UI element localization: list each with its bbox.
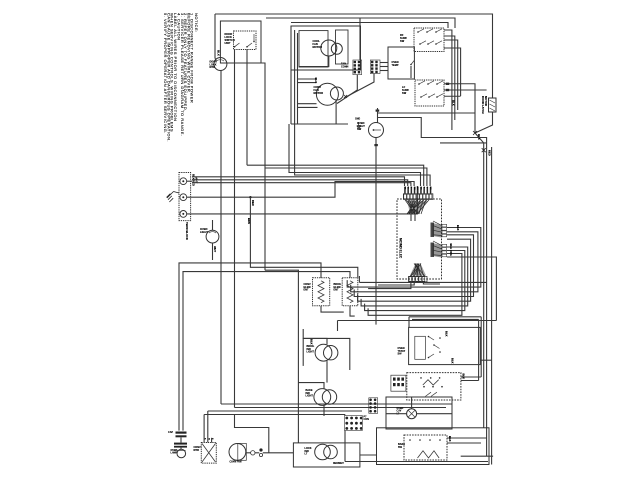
S5 wiper zigzag bbox=[423, 380, 439, 385]
broil relay pilot L1a bbox=[315, 344, 332, 361]
wire blower feed 1 bbox=[298, 78, 317, 80]
wire from door switch down bbox=[246, 50, 248, 166]
switch blade bbox=[428, 41, 434, 44]
terminal N bbox=[180, 194, 187, 201]
S3 contact bbox=[373, 129, 375, 131]
wire S3 to right bbox=[378, 112, 476, 114]
wire broil bottom bbox=[350, 306, 355, 316]
oven light switch S3 bbox=[369, 123, 384, 138]
S4 blade 1 bbox=[429, 337, 435, 341]
switch blade bbox=[411, 61, 414, 65]
svg-text:LIGHT: LIGHT bbox=[306, 395, 314, 398]
label BLK bbox=[448, 436, 452, 442]
wire right vertical s1 bbox=[480, 317, 482, 377]
selector switch S5 bbox=[407, 373, 461, 400]
svg-text:LIGHT: LIGHT bbox=[200, 230, 208, 234]
splice X1 bbox=[344, 95, 347, 98]
surface switch S2 bbox=[415, 80, 444, 106]
S7 wiper zigzag bbox=[418, 451, 440, 458]
label WHT bbox=[195, 177, 199, 184]
label P1 pin 2 bbox=[407, 187, 409, 189]
terminal T2a bbox=[259, 448, 262, 451]
wire pilot2 top bbox=[298, 383, 324, 389]
switch blade bbox=[436, 41, 442, 44]
door lock motor M1 bbox=[214, 58, 227, 71]
lamp B2 bbox=[177, 449, 186, 458]
terminal L2 bbox=[180, 211, 187, 218]
svg-text:SW: SW bbox=[357, 127, 362, 131]
switch blade bbox=[420, 41, 426, 44]
wire board out 3 bbox=[354, 235, 473, 297]
label BLU ORG bbox=[449, 244, 453, 256]
S3 pin mark top bbox=[376, 110, 380, 112]
relay enclosure bbox=[291, 26, 361, 70]
wire sensor stub bbox=[410, 66, 412, 78]
S5 contact row2 bbox=[441, 386, 443, 388]
connector P4 outline bbox=[370, 60, 380, 74]
switch blade bbox=[436, 29, 442, 32]
wire S2 out 1 bbox=[444, 84, 475, 133]
label BLK bbox=[217, 50, 221, 57]
wire pilot1 left bbox=[302, 338, 304, 366]
svg-text:RED/WHT: RED/WHT bbox=[333, 463, 344, 465]
surface switch S1 bbox=[414, 28, 444, 52]
wire board out 2 bbox=[351, 232, 478, 292]
terminal L1 pin bbox=[182, 180, 184, 182]
svg-text:LT: LT bbox=[305, 453, 308, 456]
wire stair 1 bbox=[247, 165, 424, 186]
connector P1 strip bbox=[404, 194, 432, 199]
switch blade bbox=[437, 94, 443, 97]
wire S4 out bbox=[480, 359, 491, 361]
label light switch bbox=[357, 121, 365, 131]
label P1 pin 9 bbox=[429, 187, 431, 190]
wire harness tail bbox=[414, 214, 416, 221]
connector P5 strip bbox=[442, 224, 447, 237]
S5 contact row2 bbox=[432, 386, 434, 388]
label door lock motor bbox=[210, 61, 218, 70]
svg-text:ENT: ENT bbox=[304, 289, 309, 292]
label latch motor bbox=[481, 96, 485, 114]
wire S2 out 3 bbox=[444, 95, 461, 97]
door lock switch enclosure bbox=[220, 21, 261, 63]
S1 upper contact 1 bbox=[417, 31, 419, 33]
svg-text:TEMP: TEMP bbox=[392, 64, 399, 67]
label connector P3 bbox=[341, 63, 349, 69]
wire P4 to box bbox=[380, 70, 388, 72]
wire harness tail bbox=[410, 214, 412, 221]
switch blade bbox=[235, 43, 240, 47]
wire to motor bbox=[215, 58, 216, 61]
label M5 bbox=[230, 461, 242, 464]
wire bus L1b bbox=[192, 180, 408, 186]
wire to oven light bbox=[212, 220, 214, 230]
svg-text:CON: CON bbox=[364, 418, 370, 421]
wire stair 2 bbox=[265, 168, 427, 186]
wire bottom rail 4 bbox=[204, 414, 345, 416]
label WHT bbox=[213, 246, 217, 252]
wire oven light down bbox=[212, 243, 214, 260]
label BLK bbox=[314, 78, 318, 84]
svg-text:SW: SW bbox=[398, 353, 403, 356]
label P1 pin 8 bbox=[426, 187, 428, 189]
svg-text:GND: GND bbox=[355, 119, 360, 121]
wire board out 1 bbox=[347, 228, 481, 288]
svg-text:BLU ORG: BLU ORG bbox=[449, 244, 453, 256]
switch blade bbox=[419, 81, 425, 84]
wire convect feed / left L1 bbox=[179, 263, 321, 431]
latch motor box bbox=[489, 98, 497, 112]
wire stair long bbox=[359, 281, 486, 283]
S3 pin mark bottom bbox=[374, 144, 377, 146]
wire M5 out 1 bbox=[246, 452, 250, 454]
wire S7 out 2 bbox=[447, 442, 481, 444]
svg-text:MTR: MTR bbox=[210, 66, 216, 69]
wire right bus long 2 bbox=[378, 118, 487, 457]
svg-text:CONV FAN: CONV FAN bbox=[230, 461, 242, 464]
wire loop to M5 bbox=[235, 415, 269, 453]
wire board out 8 bbox=[447, 257, 496, 321]
wire long vertical D bbox=[261, 63, 265, 270]
wire long link y320 bbox=[338, 320, 497, 322]
wire stub bbox=[253, 34, 255, 42]
svg-text:BLK: BLK bbox=[456, 225, 460, 231]
svg-text:BLK: BLK bbox=[451, 358, 455, 364]
S4 contact 1 bbox=[428, 336, 430, 338]
oven sensor box bbox=[388, 47, 414, 79]
wire latch motor down bbox=[475, 112, 493, 133]
wire harness fan P1 bbox=[405, 200, 429, 214]
wire S3 up bbox=[377, 108, 379, 123]
svg-text:UNIT: UNIT bbox=[225, 41, 231, 45]
label sensor bbox=[392, 61, 399, 67]
wire S2 out 2 bbox=[444, 89, 487, 91]
label P1 pin 5 bbox=[416, 187, 418, 190]
terminal L1 bbox=[180, 178, 187, 185]
label BLK bbox=[451, 358, 455, 364]
wire P4 to box bbox=[380, 66, 388, 68]
S5 contact row1 bbox=[439, 377, 441, 379]
S5 contact row2 bbox=[423, 386, 425, 388]
label P1 pin 3 bbox=[410, 187, 412, 189]
label S4 bbox=[398, 347, 406, 356]
label pilot 3 bbox=[305, 447, 312, 456]
contact pin 1 bbox=[234, 46, 236, 48]
wire S1 out 4 bbox=[444, 48, 461, 96]
connector mark S2b bbox=[446, 89, 449, 91]
wire bottom rail long bbox=[345, 461, 488, 463]
wire pilot1 right bbox=[303, 338, 350, 370]
label terminal block bbox=[185, 222, 189, 240]
oven cavity light B3 bbox=[407, 409, 417, 419]
wire bottom rail 2 bbox=[235, 407, 447, 409]
wire caps to lamp bbox=[180, 448, 182, 449]
wire M5 out 3 bbox=[263, 452, 294, 454]
bake relay pilot L2b bbox=[322, 390, 336, 404]
svg-text:ENT: ENT bbox=[334, 289, 339, 292]
label convect element bbox=[304, 283, 312, 292]
label W bbox=[207, 438, 209, 440]
connector P2 strip bbox=[409, 277, 425, 281]
svg-text:BLK: BLK bbox=[448, 436, 452, 442]
connector P3 outline bbox=[353, 60, 362, 75]
wire P4 to box bbox=[380, 62, 388, 64]
connector P7 bbox=[345, 417, 362, 430]
svg-text:CAP: CAP bbox=[168, 431, 173, 434]
motor winding arc bbox=[217, 60, 225, 61]
blower motor M3 bbox=[316, 83, 338, 105]
S5 blades bbox=[425, 392, 437, 396]
svg-text:BLK: BLK bbox=[452, 100, 456, 106]
S2 upper contact 3 bbox=[436, 83, 438, 85]
terminal block TB1 bbox=[179, 173, 191, 221]
label oven light bbox=[200, 227, 208, 234]
svg-text:MOTOR: MOTOR bbox=[484, 96, 488, 106]
convect element housing bbox=[313, 278, 330, 306]
wire M4 up 1 bbox=[203, 415, 205, 443]
wire S5 out 2 bbox=[461, 380, 479, 382]
broil element housing bbox=[342, 278, 358, 306]
wire S3 down long bbox=[375, 138, 377, 325]
terminal strip TS1 pins bbox=[393, 378, 404, 387]
wire right vertical s2 bbox=[478, 319, 480, 380]
wire blower feed 3 bbox=[298, 103, 317, 105]
wire M4 up 3 bbox=[211, 438, 213, 443]
wire second top rail bbox=[266, 18, 455, 28]
label BLK bbox=[462, 374, 466, 380]
label capacitor bbox=[168, 431, 173, 434]
svg-text:W: W bbox=[407, 187, 409, 189]
label blower motor bbox=[314, 85, 324, 95]
wire long vertical A bbox=[220, 71, 222, 405]
wire third top rail bbox=[291, 23, 448, 29]
sensor contact bbox=[410, 64, 412, 66]
wire harness fan P6 bbox=[431, 241, 442, 258]
thermostat capsule bbox=[415, 336, 426, 359]
oven cavity light box bbox=[386, 397, 452, 429]
wire long vertical B bbox=[234, 50, 236, 408]
notice text block bbox=[163, 13, 199, 142]
wire pilot2 bottom bbox=[323, 406, 325, 417]
fan rotor M2 bbox=[331, 43, 342, 54]
label control board bbox=[399, 238, 403, 259]
label BRN bbox=[247, 218, 251, 224]
connector P6 strip bbox=[442, 244, 447, 256]
svg-text:TERM BLOCK: TERM BLOCK bbox=[185, 222, 189, 240]
wire bottom rail extra bbox=[461, 455, 493, 457]
label BLK bbox=[452, 100, 456, 106]
label B bbox=[211, 438, 213, 440]
oven light B1 bbox=[206, 230, 219, 243]
control board A1 bbox=[397, 199, 442, 279]
label motor M4 bbox=[194, 446, 202, 452]
switch blade bbox=[437, 81, 443, 84]
label band P1 bbox=[404, 187, 431, 194]
terminal T2b bbox=[259, 453, 262, 456]
svg-text:BLK: BLK bbox=[217, 50, 221, 57]
S4 contact 5 bbox=[439, 351, 441, 353]
wire left drop bbox=[214, 14, 216, 58]
svg-text:MTR: MTR bbox=[194, 449, 200, 452]
S4 blade 2 bbox=[434, 345, 440, 349]
terminal T1 bbox=[251, 451, 255, 455]
S7 contact 4 bbox=[439, 439, 441, 441]
convection motor M4 bbox=[201, 443, 216, 464]
svg-text:BLK: BLK bbox=[314, 78, 318, 84]
S5 contact row1 bbox=[430, 377, 432, 379]
wire P2 down 1 bbox=[368, 282, 411, 289]
wire B3 top bbox=[411, 397, 413, 409]
wire bus N2 bbox=[250, 182, 414, 198]
S1 lower contact 2 bbox=[427, 43, 429, 45]
wire bus N1 bbox=[187, 196, 251, 198]
label P1 pin 4 bbox=[413, 187, 415, 191]
label pilot 2 bbox=[306, 389, 314, 398]
wire board out 4 bbox=[358, 239, 471, 301]
S2 upper contact 1 bbox=[418, 83, 420, 85]
wire bottom rail 3 bbox=[208, 410, 362, 412]
capacitor C2 plates bbox=[174, 443, 187, 448]
chassis ground bbox=[357, 122, 362, 129]
lamp B3 cross bbox=[408, 410, 415, 417]
switch blade bbox=[428, 81, 434, 84]
splice X3 bbox=[482, 148, 486, 152]
wire broil feed / left L2 bbox=[183, 272, 350, 431]
wire cluster bottom bbox=[291, 123, 348, 125]
wire long to box1 bbox=[265, 270, 298, 443]
bake switch enclosure bbox=[377, 428, 490, 465]
wire left edge extend bbox=[290, 26, 292, 124]
wire S1 out 1 bbox=[444, 30, 452, 130]
wire inner vertical 1 bbox=[294, 30, 296, 124]
relay K2 housing bbox=[336, 30, 349, 64]
wire pilot1 bottom bbox=[326, 361, 328, 383]
latch motor hatch bbox=[490, 100, 496, 111]
wire blower down bbox=[335, 100, 337, 124]
label RED bbox=[488, 150, 492, 156]
wire board out 7 bbox=[368, 254, 462, 316]
wire to board pin bbox=[295, 124, 431, 186]
svg-text:W: W bbox=[207, 438, 209, 440]
svg-text:LAMP: LAMP bbox=[171, 452, 178, 455]
wire P2 down 2 bbox=[378, 282, 414, 286]
label P1 pin 6 bbox=[419, 187, 421, 191]
wire to board pin bbox=[289, 124, 421, 186]
S2 upper contact 2 bbox=[427, 83, 429, 85]
S1 upper contact 2 bbox=[426, 31, 428, 33]
svg-text:BLK: BLK bbox=[462, 374, 466, 380]
terminal strip TS1 bbox=[391, 375, 406, 391]
bake switch S7 bbox=[404, 435, 447, 460]
label BLK bbox=[310, 339, 314, 345]
wire out of B3 bbox=[417, 413, 452, 415]
label latch motor 2 bbox=[484, 96, 488, 106]
label S7 bbox=[398, 443, 405, 449]
svg-text:RED: RED bbox=[488, 150, 492, 156]
svg-text:5. VERIFY PROPER OPERATION AFT: 5. VERIFY PROPER OPERATION AFTER SERVICI… bbox=[163, 13, 168, 134]
label cavity light bbox=[397, 407, 404, 415]
svg-text:MC/MD ELEC: MC/MD ELEC bbox=[399, 238, 403, 259]
wire harness fan P2 bbox=[410, 264, 426, 277]
label door lock switch bbox=[225, 32, 235, 45]
label BLK bbox=[477, 134, 481, 140]
wire box1 to box2 bbox=[360, 454, 377, 456]
wire bus L1a bbox=[192, 177, 405, 186]
lamp B2 base bbox=[177, 450, 186, 452]
svg-text:CONN: CONN bbox=[341, 65, 349, 68]
S5 contact row1 bbox=[420, 377, 422, 379]
wire bus L1c bbox=[192, 183, 411, 186]
wire right bus long 1 bbox=[475, 133, 484, 428]
wire harness fan P5 bbox=[431, 221, 442, 238]
label BLK bbox=[456, 225, 460, 231]
contact pin 3 bbox=[253, 41, 255, 43]
wire S5 out 1 bbox=[461, 376, 481, 378]
door lock switch S6 bbox=[234, 31, 257, 50]
wire stair long stub bbox=[358, 276, 360, 282]
wire convect bottom bbox=[321, 306, 344, 312]
wire bottom rail 1 bbox=[221, 403, 452, 405]
capacitor C1 plates bbox=[176, 432, 187, 438]
svg-text:WHT: WHT bbox=[213, 246, 217, 252]
connector P7 outline bbox=[345, 416, 363, 431]
wire terminal stub bbox=[187, 180, 192, 182]
terminal L2 pin bbox=[182, 213, 184, 215]
switch blade bbox=[418, 29, 424, 32]
S3 blade bbox=[374, 129, 382, 131]
latch pilot L3a bbox=[315, 444, 331, 460]
wire box top link 2 bbox=[412, 318, 479, 320]
S1 lower contact 1 bbox=[419, 43, 421, 45]
svg-text:SW: SW bbox=[400, 39, 405, 43]
junction N bbox=[249, 196, 251, 198]
label BLK bbox=[192, 174, 196, 180]
wire S7 out 1 bbox=[447, 437, 487, 439]
latch pilot enclosure bbox=[293, 443, 360, 467]
switch blade bbox=[421, 94, 427, 97]
S4 contact 3 bbox=[428, 357, 430, 359]
wire P2 down 3 bbox=[423, 282, 440, 285]
svg-text:BLK: BLK bbox=[477, 134, 481, 140]
connector P8 bbox=[369, 399, 376, 413]
label REDWHT bbox=[333, 463, 344, 465]
wire rail stub up bbox=[344, 431, 346, 462]
label fan motor bbox=[313, 39, 323, 49]
S2 lower contact 2 bbox=[428, 96, 430, 98]
wire fan bottom bbox=[299, 56, 329, 67]
convect element R1 bbox=[318, 281, 324, 303]
wire cross link bbox=[440, 142, 487, 144]
ground symbol bbox=[167, 192, 180, 203]
switch blade bbox=[427, 29, 433, 32]
label P1 pin 7 bbox=[423, 187, 425, 189]
bake fan motor M5 bbox=[229, 444, 246, 461]
motor M5 body bbox=[238, 443, 247, 460]
label S1 bbox=[400, 33, 407, 43]
wire connector to top rail bbox=[359, 18, 361, 60]
svg-text:SW: SW bbox=[398, 446, 403, 449]
wire rail to P7 bbox=[344, 415, 346, 416]
svg-text:BLK: BLK bbox=[445, 331, 449, 337]
S2 lower contact 3 bbox=[436, 96, 438, 98]
wire blower feed 4 bbox=[298, 106, 318, 108]
S7 contact 1 bbox=[409, 439, 411, 441]
wire board out 6 bbox=[365, 251, 465, 311]
wire board out 5 bbox=[361, 247, 468, 306]
label broil element bbox=[334, 283, 342, 292]
lamp filament bbox=[209, 232, 216, 233]
wire S1 out 3 bbox=[444, 40, 458, 110]
